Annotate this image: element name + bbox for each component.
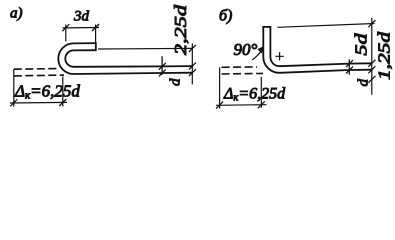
tick 3d left (62, 24, 69, 31)
tick top (fig b) (368, 20, 375, 27)
bend inner arc and bar top (270, 57, 371, 66)
vertical leg right line (269, 27, 271, 57)
tick 2,25d bottom (189, 69, 196, 76)
svg-text:Δк=6,25d: Δк=6,25d (14, 82, 80, 102)
dimension 3d line (63, 27, 100, 29)
delta-k extension left (fig b) (219, 67, 221, 108)
svg-text:d: d (356, 79, 372, 87)
delta-k dimension line (10, 101, 67, 104)
vertical leg left line (262, 27, 264, 57)
hook inner outline (return leg bottom, inner bend, bar top) (65, 50, 192, 67)
delta-k extension right (fig b) (260, 77, 262, 108)
tick delta-k left (fig b) (216, 102, 223, 109)
tick delta-k left (10, 99, 17, 106)
tick bar end bottom (fig b) (346, 67, 353, 74)
svg-text:5d: 5d (352, 33, 371, 56)
tick d top (159, 63, 166, 70)
bar end cap / d dimension line (161, 56, 163, 75)
extension line 3d right (95, 25, 97, 43)
tick 3d right (92, 24, 99, 31)
delta-k extension left (13, 69, 15, 107)
svg-text:3d: 3d (73, 9, 90, 25)
bend outer arc and bar bottom (263, 57, 372, 73)
delta-k dimension line (fig b) (216, 104, 267, 107)
tick 2,25d mid (189, 63, 196, 70)
tick delta-k right (59, 99, 66, 106)
hook outer outline (return leg top, 180 bend, bar bottom) (58, 43, 192, 74)
dimension line 2,25d (191, 43, 193, 84)
leg top cap (262, 26, 271, 28)
tick bar bottom (fig b) (368, 66, 375, 73)
angle arc arrow (252, 47, 263, 60)
extension line leg top (fig b) (278, 24, 375, 28)
return leg end cap (95, 42, 97, 51)
extension line hook inner top (98, 47, 192, 50)
dashed bar continuation bottom (14, 74, 64, 77)
bend center mark + (275, 52, 283, 60)
svg-text:б): б) (219, 8, 232, 25)
tick lower extra (fig b) (368, 76, 375, 83)
dimension line right (fig b) (371, 18, 373, 95)
svg-text:1,25d: 1,25d (375, 31, 394, 80)
svg-text:90°: 90° (234, 40, 258, 59)
tick 2,25d top (189, 45, 196, 52)
bar end cap / d ticks (fig b) (348, 59, 350, 74)
tick d bottom (159, 69, 166, 76)
delta-k extension right (62, 77, 64, 107)
tick delta-k right (fig b) (258, 101, 265, 108)
svg-text:а): а) (10, 6, 23, 22)
tick bar end top (fig b) (346, 60, 353, 67)
tick bar top (fig b) (368, 60, 375, 67)
extension line 3d left (65, 25, 67, 42)
dashed bar continuation top (14, 68, 57, 71)
dashed continuation bottom (fig b) (222, 72, 263, 75)
svg-text:Δк=6,25d: Δк=6,25d (223, 86, 286, 104)
dashed continuation top (fig b) (222, 66, 257, 68)
svg-text:d: d (168, 78, 184, 86)
svg-text:2,25d: 2,25d (171, 4, 190, 55)
